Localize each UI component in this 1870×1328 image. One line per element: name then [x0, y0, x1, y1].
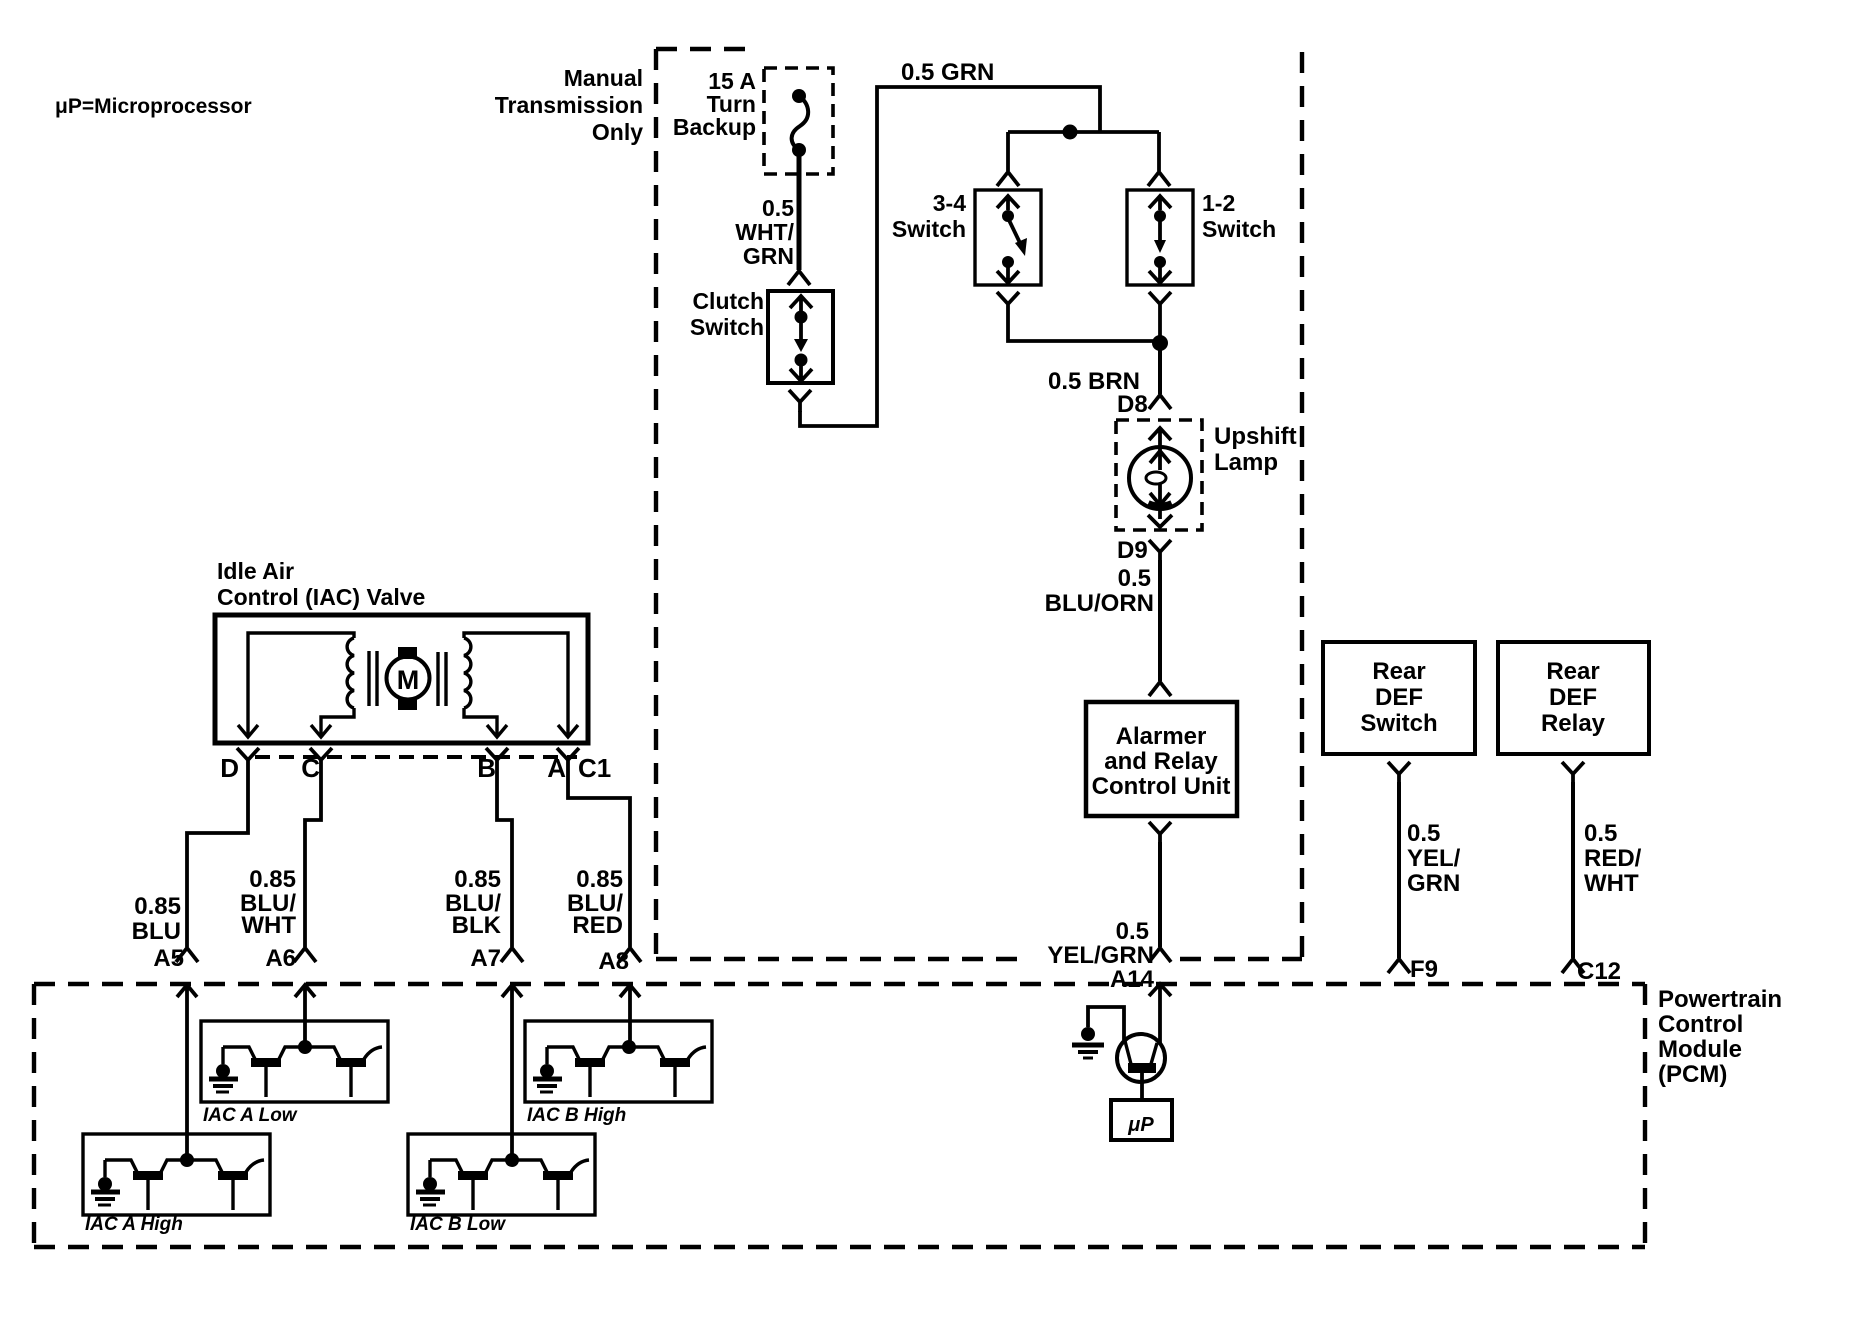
svg-text:μP=Microprocessor: μP=Microprocessor — [55, 95, 252, 118]
svg-text:BLK: BLK — [452, 912, 502, 939]
svg-text:0.5: 0.5 — [762, 195, 794, 221]
svg-text:A8: A8 — [598, 948, 629, 975]
svg-text:C12: C12 — [1577, 958, 1621, 985]
svg-text:RED/: RED/ — [1584, 845, 1642, 872]
svg-text:IAC B High: IAC B High — [527, 1105, 626, 1126]
svg-text:B: B — [477, 753, 496, 783]
svg-text:YEL/GRN: YEL/GRN — [1047, 942, 1154, 969]
svg-text:D: D — [220, 753, 239, 783]
svg-text:0.85: 0.85 — [249, 866, 296, 893]
svg-text:0.85: 0.85 — [134, 893, 181, 920]
svg-text:IAC A Low: IAC A Low — [203, 1105, 298, 1126]
svg-text:0.85: 0.85 — [576, 866, 623, 893]
svg-text:Manual: Manual — [564, 65, 643, 91]
svg-text:YEL/: YEL/ — [1407, 845, 1461, 872]
svg-text:Control Unit: Control Unit — [1092, 773, 1231, 800]
svg-text:C1: C1 — [578, 753, 611, 783]
svg-text:Backup: Backup — [673, 114, 756, 140]
svg-text:Switch: Switch — [892, 216, 966, 242]
svg-text:Transmission: Transmission — [495, 92, 643, 118]
svg-text:Powertrain: Powertrain — [1658, 986, 1782, 1013]
svg-text:GRN: GRN — [743, 243, 794, 269]
svg-text:GRN: GRN — [1407, 870, 1460, 897]
svg-text:0.5: 0.5 — [1118, 565, 1151, 592]
svg-text:WHT/: WHT/ — [735, 219, 794, 245]
svg-text:A14: A14 — [1110, 966, 1155, 993]
svg-text:A: A — [547, 753, 566, 783]
svg-text:WHT: WHT — [241, 912, 296, 939]
svg-text:IAC B Low: IAC B Low — [410, 1214, 506, 1235]
svg-text:Idle Air: Idle Air — [217, 558, 294, 584]
svg-text:DEF: DEF — [1375, 684, 1423, 711]
svg-text:0.5: 0.5 — [1407, 820, 1440, 847]
svg-text:WHT: WHT — [1584, 870, 1639, 897]
svg-text:Switch: Switch — [690, 314, 764, 340]
svg-text:Relay: Relay — [1541, 710, 1606, 737]
svg-text:Module: Module — [1658, 1036, 1742, 1063]
svg-text:Switch: Switch — [1360, 710, 1437, 737]
svg-text:3-4: 3-4 — [933, 190, 966, 216]
svg-text:Rear: Rear — [1372, 658, 1425, 685]
svg-text:D9: D9 — [1117, 537, 1148, 564]
svg-text:0.85: 0.85 — [454, 866, 501, 893]
svg-text:BLU/ORN: BLU/ORN — [1045, 590, 1154, 617]
svg-text:D8: D8 — [1117, 391, 1148, 418]
svg-text:Upshift: Upshift — [1214, 423, 1297, 450]
svg-text:0.5: 0.5 — [1116, 918, 1149, 945]
svg-text:IAC A High: IAC A High — [85, 1214, 183, 1235]
svg-text:0.5: 0.5 — [1584, 820, 1617, 847]
svg-text:F9: F9 — [1410, 956, 1438, 983]
svg-text:Only: Only — [592, 119, 643, 145]
svg-text:Control (IAC) Valve: Control (IAC) Valve — [217, 584, 425, 610]
svg-text:M: M — [397, 665, 420, 695]
svg-text:A5: A5 — [153, 945, 184, 972]
svg-text:A7: A7 — [470, 945, 501, 972]
svg-text:C: C — [301, 753, 320, 783]
svg-text:0.5 GRN: 0.5 GRN — [901, 59, 994, 86]
svg-text:BLU: BLU — [132, 918, 181, 945]
svg-text:(PCM): (PCM) — [1658, 1061, 1727, 1088]
svg-text:Switch: Switch — [1202, 216, 1276, 242]
svg-text:Control: Control — [1658, 1011, 1743, 1038]
svg-text:1-2: 1-2 — [1202, 190, 1235, 216]
svg-text:μP: μP — [1127, 1114, 1154, 1136]
svg-text:Lamp: Lamp — [1214, 449, 1278, 476]
svg-text:Clutch: Clutch — [692, 288, 764, 314]
svg-text:Rear: Rear — [1546, 658, 1599, 685]
svg-text:RED: RED — [572, 912, 623, 939]
svg-text:Alarmer: Alarmer — [1116, 723, 1207, 750]
svg-text:and Relay: and Relay — [1104, 748, 1218, 775]
svg-text:DEF: DEF — [1549, 684, 1597, 711]
svg-text:A6: A6 — [265, 945, 296, 972]
